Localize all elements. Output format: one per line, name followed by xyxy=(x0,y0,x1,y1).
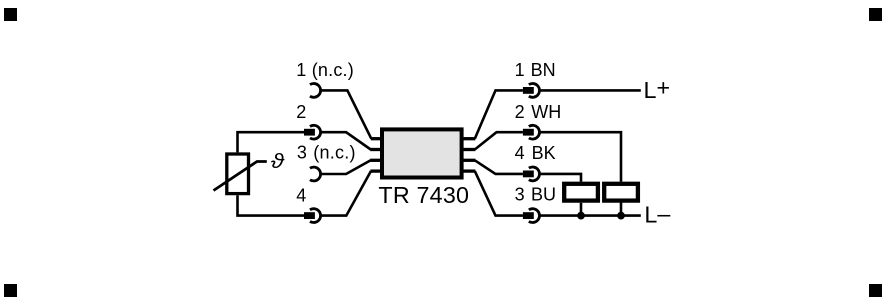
pin 3 BU socket xyxy=(529,209,540,223)
pin 1 socket (n.c.) xyxy=(310,84,321,98)
junction dot load 2 xyxy=(617,212,625,220)
wire load 2 to L- xyxy=(620,203,623,216)
pin 1 BN plug xyxy=(523,87,534,94)
svg-text:3 BU: 3 BU xyxy=(515,185,556,205)
pin 2 WH plug xyxy=(523,129,534,136)
corner mark bottom-right xyxy=(869,284,882,297)
transmitter box U1 xyxy=(382,129,462,177)
svg-text:L+: L+ xyxy=(644,75,671,104)
pin 3 socket (n.c.) xyxy=(310,167,321,181)
pin 4 BK socket xyxy=(529,167,540,181)
svg-text:L–: L– xyxy=(644,201,670,228)
wire 1 BN to L+ xyxy=(540,89,641,92)
svg-text:1 BN: 1 BN xyxy=(515,60,556,80)
svg-text:TR 7430: TR 7430 xyxy=(378,182,469,208)
wire 4 BK to load 1 xyxy=(540,174,582,182)
wire pin 4 to box xyxy=(321,171,371,216)
junction dot load 1 xyxy=(577,212,585,220)
svg-text:4: 4 xyxy=(296,185,306,205)
pin 2 plug xyxy=(304,129,315,136)
box pin stub right 2 xyxy=(463,148,475,151)
pin 2 WH socket xyxy=(529,125,540,139)
svg-text:2: 2 xyxy=(296,102,306,122)
pin 4 plug xyxy=(304,212,315,219)
svg-text:4 BK: 4 BK xyxy=(515,143,556,163)
corner mark top-right xyxy=(869,8,882,21)
box pin stub right 4 xyxy=(463,169,475,172)
wire thermistor bottom to pin 4 xyxy=(238,195,305,215)
corner mark bottom-left xyxy=(4,284,17,297)
box pin stub left 2 xyxy=(370,148,380,151)
pin 4 socket xyxy=(310,209,321,223)
svg-text:2 WH: 2 WH xyxy=(515,102,562,122)
load resistor 2 xyxy=(604,184,638,201)
pin 2 socket xyxy=(310,125,321,139)
wire load 1 to L- xyxy=(580,203,583,216)
pin 3 BU plug xyxy=(523,212,534,219)
wire 3 BU to L- xyxy=(540,214,641,217)
svg-text:ϑ: ϑ xyxy=(271,151,285,173)
corner mark top-left xyxy=(4,8,17,21)
wire 2 WH to load 2 xyxy=(540,132,622,182)
box pin stub left 4 xyxy=(370,169,380,172)
wire pin 1 to box xyxy=(321,90,372,138)
thermistor RT xyxy=(214,154,267,194)
load resistor 1 xyxy=(564,184,598,201)
wire pin 3 to box xyxy=(321,160,371,174)
pin 4 BK plug xyxy=(523,171,534,178)
wire stub3 to pin 4 BK xyxy=(475,160,523,174)
pin 1 BN socket xyxy=(529,84,540,98)
wire stub4 to pin 3 BU xyxy=(475,171,523,216)
wire thermistor top to pin 2 xyxy=(238,132,305,152)
wire stub1 to pin 1 BN xyxy=(475,90,523,138)
box pin stub right 1 xyxy=(463,137,475,140)
box pin stub right 3 xyxy=(463,159,475,162)
svg-text:3 (n.c.): 3 (n.c.) xyxy=(297,142,356,162)
box pin stub left 1 xyxy=(371,137,381,140)
wire stub2 to pin 2 WH xyxy=(475,132,523,149)
wire pin 2 to box xyxy=(321,132,371,149)
svg-text:1 (n.c.): 1 (n.c.) xyxy=(296,60,354,80)
box pin stub left 3 xyxy=(370,159,380,162)
